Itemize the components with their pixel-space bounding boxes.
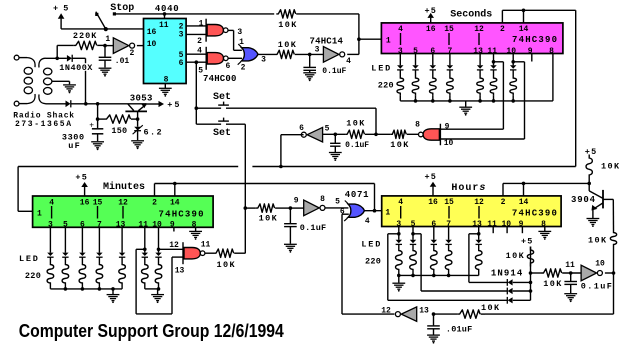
LED with 220 resistor (Hours pin 13) [475,227,482,276]
resistor 10K to inverter5 [323,130,365,138]
pin label 8 [320,195,325,204]
wire U3b out to OR in2 [229,57,243,59]
svg-text:Computer Support Group 12/6/19: Computer Support Group 12/6/1994 [19,321,284,341]
inverter U9b (13 to 12) [395,307,416,322]
svg-text:4: 4 [49,198,54,207]
pin label 6 [299,124,304,133]
wire 4040 pin2 [186,25,206,27]
svg-text:2: 2 [197,37,202,46]
pin label 6 (Seconds bottom) [430,47,435,56]
gate U3c 74HC00 NAND (mirrored) [419,124,441,146]
internal stub pin 12 [478,206,480,219]
svg-text:LED: LED [361,240,382,250]
svg-text:220K: 220K [73,31,97,41]
switch S3 Set (minutes) [196,118,245,254]
svg-text:15: 15 [444,198,454,207]
resistor 10K reset fb [458,310,485,318]
label 10K [588,236,608,246]
node filter cap tap [96,102,100,106]
pin label 4 (Minutes top) [49,198,54,207]
pin label 2 [129,49,134,58]
svg-text:10: 10 [501,220,511,229]
internal stub pin 12 [478,33,480,45]
node inverter11 input [569,271,573,275]
pin label 8 (Minutes bottom) [192,220,197,229]
ground Hours pin8 [538,227,551,240]
LED with 220 resistor (Minutes pin 11) [142,227,149,289]
transformer center tap wire [52,81,69,84]
pin label 2 [197,37,202,46]
svg-text:2: 2 [241,64,246,73]
pin label 3 [315,45,320,54]
svg-text:2: 2 [129,49,134,58]
capacitor 0.1uF reset [564,273,577,293]
wire inverter out to 4040 pin10 [137,45,144,47]
internal stub pin 12 [122,206,124,219]
pin label 16 (Minutes top) [80,198,90,207]
node zener tap [136,117,140,121]
svg-text:14: 14 [170,198,180,207]
pin label 5 (Seconds bottom) [413,47,418,56]
wire carry bus left [18,166,238,168]
pin label 3 (Seconds bottom) [398,47,403,56]
pin label 12 (Hours top) [474,198,484,207]
wire Hours LED bus [399,274,479,276]
pin label 15 (Hours top) [444,198,454,207]
svg-text:13: 13 [472,220,482,229]
svg-text:4: 4 [398,198,403,207]
pin label 1 (Minutes) [37,210,42,219]
svg-text:14: 14 [519,25,529,34]
svg-text:1: 1 [386,36,391,45]
wire U3a out to OR in1 [228,30,242,50]
node pin14 tie (Hours) [522,182,526,186]
node LED bus junction [511,99,515,103]
svg-text:15: 15 [93,198,103,207]
ground Hours LED bus [392,275,405,291]
inverter U2b 74HC14 [323,47,344,63]
svg-text:15: 15 [444,25,454,34]
resistor 10K pullup reset [506,237,534,267]
svg-text:14: 14 [519,198,529,207]
svg-text:Minutes: Minutes [103,181,145,193]
svg-text:220: 220 [25,271,41,281]
label Stop [110,3,134,14]
node LED bus junction [447,274,451,278]
pin label 9 [294,197,299,206]
pin label 12 [169,241,179,250]
pin label 3 [237,28,242,37]
wire inverter8 out to OR5 [325,207,348,209]
capacitor 0.1uF set [330,134,340,152]
LED with 220 resistor (Seconds pin 10) [510,54,517,101]
wire 10K to set node [365,133,390,135]
label 3053 [130,94,153,104]
resistor 150 [98,115,138,123]
ground 4040 pin8 [159,84,172,97]
pin label 10 [444,139,454,148]
svg-text:+ 5: + 5 [53,3,68,13]
svg-text:10K: 10K [588,236,608,246]
wire OR4 out to Hours pin1 [365,210,382,212]
pin label 10 (Seconds bottom) [506,47,516,56]
node LED bus junction [411,274,415,278]
internal stub pin 4 [400,33,402,45]
wire sense pin10 to gate12 [159,248,184,250]
ground 0.1uF [303,73,316,82]
svg-text:8: 8 [415,120,420,129]
label 1N914 [491,269,524,279]
svg-text:6.2: 6.2 [144,128,164,138]
gate U4a OR (blue) [238,44,258,65]
pin label 6 [225,62,230,71]
label 10K [278,20,298,30]
node sense pin11 [492,60,496,64]
pin label 12 (Seconds top) [474,25,484,34]
svg-text:LED: LED [371,64,392,74]
IC U8 74HC390 Hours counter [382,196,561,227]
wire gate8 out to 10K [407,133,419,135]
wire Hours pin11 stub [492,227,494,234]
label 0.1uF [322,67,346,76]
LED with 220 resistor (Seconds pin 7) [447,54,454,101]
label 4071 [345,190,369,200]
node sense Hours pin3 [397,232,401,236]
svg-text:Hours: Hours [451,183,486,194]
svg-text:10: 10 [152,220,162,229]
+5 output arrow [146,100,182,110]
gate U3b 74HC00 NAND [206,47,228,70]
label 74HC00 [203,74,237,84]
label LED (Hours) [361,240,382,250]
internal stub pin 4 [400,206,402,219]
svg-text:+5: +5 [521,237,534,247]
internal stub pin 15 [97,206,99,219]
svg-text:4040: 4040 [155,4,179,14]
pin label 9 [445,122,450,131]
pin label 2 (Seconds top) [500,25,505,34]
+5 arrow Minutes pin16 [75,173,88,196]
pin label 8 (Hours bottom) [541,220,546,229]
node rectifier join [84,102,88,106]
pin label 7 (Minutes bottom) [97,220,102,229]
svg-text:Stop: Stop [110,3,134,14]
+5 arrow Hours pin16 [425,172,438,196]
diode D4 1N914 [507,279,512,286]
svg-text:3: 3 [179,31,184,40]
pin label 14 (Seconds top) [519,25,529,34]
pin label 9 (Seconds bottom) [528,47,533,56]
wire secondary top to diode [46,57,67,59]
svg-text:3: 3 [261,55,266,64]
svg-text:220: 220 [378,80,394,90]
resistor 220K [57,41,105,58]
pin label 6 (Minutes bottom) [80,220,85,229]
wire Minutes LED bus 2 [145,288,159,290]
pin label 12 [381,307,391,316]
diode D1 1N400X top [67,55,72,62]
svg-text:4: 4 [365,217,370,226]
svg-text:10K: 10K [346,118,366,128]
inverter U9a (11 to 10) [581,265,602,281]
label 74HC14 [310,36,344,46]
gate U7a 4071 OR [344,201,364,222]
svg-text:10K: 10K [506,251,526,261]
IC U6 74HC390 Minutes counter [33,196,214,227]
svg-text:13: 13 [473,47,483,56]
ground Seconds LED bus [459,101,472,116]
node LED bus junction [157,287,161,291]
node 150 tap [96,117,100,121]
svg-text:4071: 4071 [345,190,369,200]
node pin11 stub [163,12,167,16]
svg-text:11: 11 [201,241,211,250]
svg-text:273-1365A: 273-1365A [15,120,73,129]
svg-text:Set: Set [213,128,231,139]
svg-text:1: 1 [37,210,42,219]
node sense Minutes pin10 [157,248,161,252]
resistor 10K reset [390,130,406,138]
svg-text:5: 5 [325,124,330,133]
pin label 10 [595,259,605,268]
wire sense pin10 to gate10 [440,62,524,139]
label 6.2 [144,128,164,138]
pin label 8 (Seconds bottom) [549,47,554,56]
LED with 220 resistor (Seconds pin 5) [412,54,419,101]
LED with 220 resistor (Minutes pin 13) [119,227,126,289]
capacitor .01uF [427,314,440,335]
svg-text:8: 8 [320,195,325,204]
wire Minutes LED bus [50,288,122,290]
label 10K [481,303,501,313]
svg-text:13: 13 [175,267,185,276]
label 220 (Minutes) [25,271,41,281]
pin label 5 [198,67,203,76]
+5 arrow Seconds pin16 [425,6,438,23]
svg-text:12: 12 [169,241,179,250]
svg-text:4: 4 [398,25,403,34]
node inverter5 cap node [334,133,338,137]
wire sense pin11 to gate9 [440,62,503,129]
svg-text:74HC390: 74HC390 [512,35,558,45]
pin label 16 (Hours top) [428,198,438,207]
pin label 11 (Seconds bottom) [487,47,497,56]
svg-text:10K: 10K [481,303,501,313]
node set-seconds [374,133,378,137]
wire feedback right [296,14,359,55]
transistor Q1 3053 emitter-follower regulator [125,103,147,119]
node sense pin10 [511,60,515,64]
wire Minutes pin9 stub [173,227,175,232]
svg-text:1: 1 [105,35,110,44]
node LED bus junction [64,287,68,291]
svg-text:150: 150 [111,126,127,136]
wire 4040 pin6 [186,61,206,63]
svg-text:2: 2 [501,198,506,207]
wire Minutes pin1 loop [18,167,32,212]
wire Minutes pins 2+14 tie [155,184,375,211]
internal stub pin 15 [448,33,450,45]
wire sense pin13 to diode row1 [469,234,507,283]
svg-text:12: 12 [474,198,484,207]
wire collector down [612,199,614,229]
node diode join2 [529,289,533,293]
diode D6 1N914 [507,297,512,304]
svg-text:16: 16 [426,25,436,34]
pin label 2 (Hours top) [501,198,506,207]
ground .01 cap [99,68,112,77]
node LED bus junction [397,274,401,278]
LED with 220 resistor (Minutes pin 10) [155,227,162,289]
label 0.1uF [581,281,614,291]
internal stub pin 15 [448,206,450,219]
node pin14 tie (Minutes) [173,182,177,186]
label 3300 uF [62,133,85,152]
wire 4071 pin6 from inverter12 [342,214,349,314]
svg-text:1N914: 1N914 [491,269,524,279]
node pin14 tie [522,9,526,13]
wire gate11 out [205,252,214,254]
pin label 5 (Minutes bottom) [63,220,68,229]
title Computer Support Group 12/6/1994 [19,321,284,341]
svg-text:10: 10 [506,47,516,56]
ground center tap [63,85,76,94]
gate U3d 74HC00 NAND [183,242,205,264]
svg-text:74HC390: 74HC390 [512,208,558,218]
LED with 220 resistor (Hours pin 6) [431,227,438,276]
svg-text:0.1uF: 0.1uF [322,67,346,76]
svg-text:uF: uF [68,141,81,151]
label Radio Shack 273-1365A [13,111,75,129]
node carry join [373,209,377,213]
wire sense pin11 loop to gate13 [136,249,183,314]
svg-text:11: 11 [565,261,575,270]
label 150 [111,126,127,136]
label 10K [346,118,366,128]
LED with 220 resistor (Seconds pin 11) [490,54,497,101]
label LED (Minutes) [19,254,40,264]
node pin6 set-tap [195,60,199,64]
wire OR out to 10K [258,53,275,55]
LED with 220 resistor (Hours pin 3) [396,227,403,276]
label 10K [390,140,410,150]
svg-text:2: 2 [152,198,157,207]
LED with 220 resistor (Minutes pin 5) [62,227,69,289]
label 220K [73,31,97,41]
wire inverter4 out [347,53,359,55]
node LED bus junction [432,274,436,278]
inverter U2d (9 to 8) [304,200,325,216]
pin label 1 (Hours) [385,209,390,218]
node secondary-top / 220K tap [55,57,59,61]
svg-text:10K: 10K [543,279,563,289]
diode D2 1N400X bottom [66,100,71,107]
node LED bus junction [431,99,435,103]
label 74HC390 [512,208,558,218]
label 10K [217,260,237,270]
node sense Minutes pin11 [143,248,147,252]
label 0.1uF [345,141,369,150]
pin label 14 (Minutes top) [170,198,180,207]
wire 10K to set vertical [234,252,245,254]
wire to inverter9 [290,207,303,209]
ground Minutes LED bus 2 [151,289,164,303]
wire 4040 pin5 [186,53,206,55]
svg-text:10K: 10K [217,260,237,270]
label 0.1uF [300,223,327,233]
label 10K [543,279,563,289]
pin label 12 (Minutes top) [118,198,128,207]
label 10K [278,40,298,50]
pin label 11 (Minutes bottom) [138,220,148,229]
node 74HC14 input [308,53,312,57]
svg-text:220: 220 [365,257,381,267]
pin label 15 (Minutes top) [93,198,103,207]
svg-text:1N400X: 1N400X [59,63,93,73]
node inverter6 join [279,165,283,169]
svg-text:0.1uF: 0.1uF [345,141,369,150]
svg-text:11: 11 [138,220,148,229]
label Set [213,92,231,103]
resistor 10K hours clock [245,204,290,212]
pin label 16 (Seconds top) [426,25,436,34]
svg-text:10: 10 [595,259,605,268]
svg-text:5: 5 [335,198,340,207]
svg-text:0.1uF: 0.1uF [581,281,614,291]
label 10K [259,213,279,223]
svg-text:3904: 3904 [571,195,596,205]
svg-text:+5: +5 [167,100,181,110]
svg-text:9: 9 [294,197,299,206]
pin label 4 [346,57,351,66]
wire Hours pin10 stub [506,227,508,234]
label Minutes [103,181,145,193]
transformer T1 Radio Shack 273-1365A [14,55,52,106]
svg-text:8: 8 [164,76,169,85]
svg-text:2: 2 [500,25,505,34]
node LED bus junction [492,99,496,103]
wire 10K to inverter13 [434,313,458,315]
svg-text:LED: LED [19,254,40,264]
pin label 74HC390 [512,35,558,45]
svg-text:Seconds: Seconds [450,8,492,20]
svg-text:10K: 10K [278,20,298,30]
LED with 220 resistor (Hours pin 5) [410,227,417,276]
node sense Hours pin13 [477,232,481,236]
svg-text:1: 1 [199,20,204,29]
resistor 10K osc [275,50,294,58]
wire sense pin3 to diode row3 [388,234,507,300]
label 3904 [571,195,596,205]
node LED bus junction [478,99,482,103]
pin label 14 (Hours top) [519,198,529,207]
pin label 11 [201,241,211,250]
node collector join [612,271,616,275]
capacitor 0.1uF osc [303,54,316,72]
svg-text:4: 4 [197,46,202,55]
ground hours clock cap [284,244,297,253]
svg-text:11: 11 [487,47,497,56]
pin label 1 [105,35,110,44]
wire set vertical [195,62,197,124]
resistor 10K carry [214,249,234,257]
capacitor .01 [99,46,112,68]
svg-text:10K: 10K [278,40,298,50]
pin label 6 (Hours bottom) [431,220,436,229]
wire Hours pins 2+14 tie [503,183,589,196]
svg-text:12: 12 [474,25,484,34]
node LED bus junction [448,99,452,103]
